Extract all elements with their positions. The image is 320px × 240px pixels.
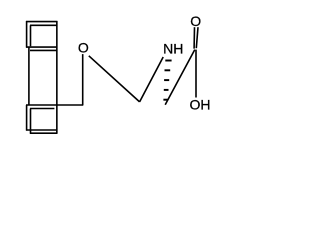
bond ether O to chain CH2: [89, 56, 140, 102]
ring bottom edge: [26, 129, 57, 131]
ring cross edge lower + bond to benzyl CH2: [26, 104, 83, 106]
hashed wedge bond NH to C-alpha: [163, 61, 171, 100]
bond chain CH2 up to NH: [140, 57, 164, 102]
svg-text:NH: NH: [163, 41, 183, 57]
ring cross edge upper double bond partner: [30, 49, 57, 51]
svg-text:O: O: [190, 13, 201, 29]
chemical structure drawing: [0, 0, 236, 153]
ring cross edge upper: [26, 46, 57, 48]
ring bottom-square left edge double bond inner line: [30, 109, 32, 134]
ring bottom-square left edge: [26, 105, 28, 131]
ring cross edge lower double bond partner: [30, 108, 54, 110]
benzene ring top edge: [26, 21, 57, 23]
benzene ring top edge double bond inner line: [30, 24, 57, 26]
bond carboxyl C to hydroxyl O: [195, 50, 197, 98]
ring left middle edge: [28, 47, 30, 105]
bond C-alpha to carboxyl C: [165, 50, 195, 105]
carboxyl C=O double bond line 1: [193, 27, 195, 48]
bond benzyl CH2 up to ether O: [82, 54, 84, 105]
svg-text:O: O: [78, 40, 89, 56]
ring top-square left edge double bond inner line: [30, 25, 32, 46]
ring right edge: [56, 21, 58, 134]
svg-text:OH: OH: [190, 97, 211, 113]
ring bottom edge double bond partner: [30, 132, 57, 134]
ring top-square left edge: [26, 21, 28, 48]
carboxyl C=O double bond line 2: [196, 27, 198, 48]
